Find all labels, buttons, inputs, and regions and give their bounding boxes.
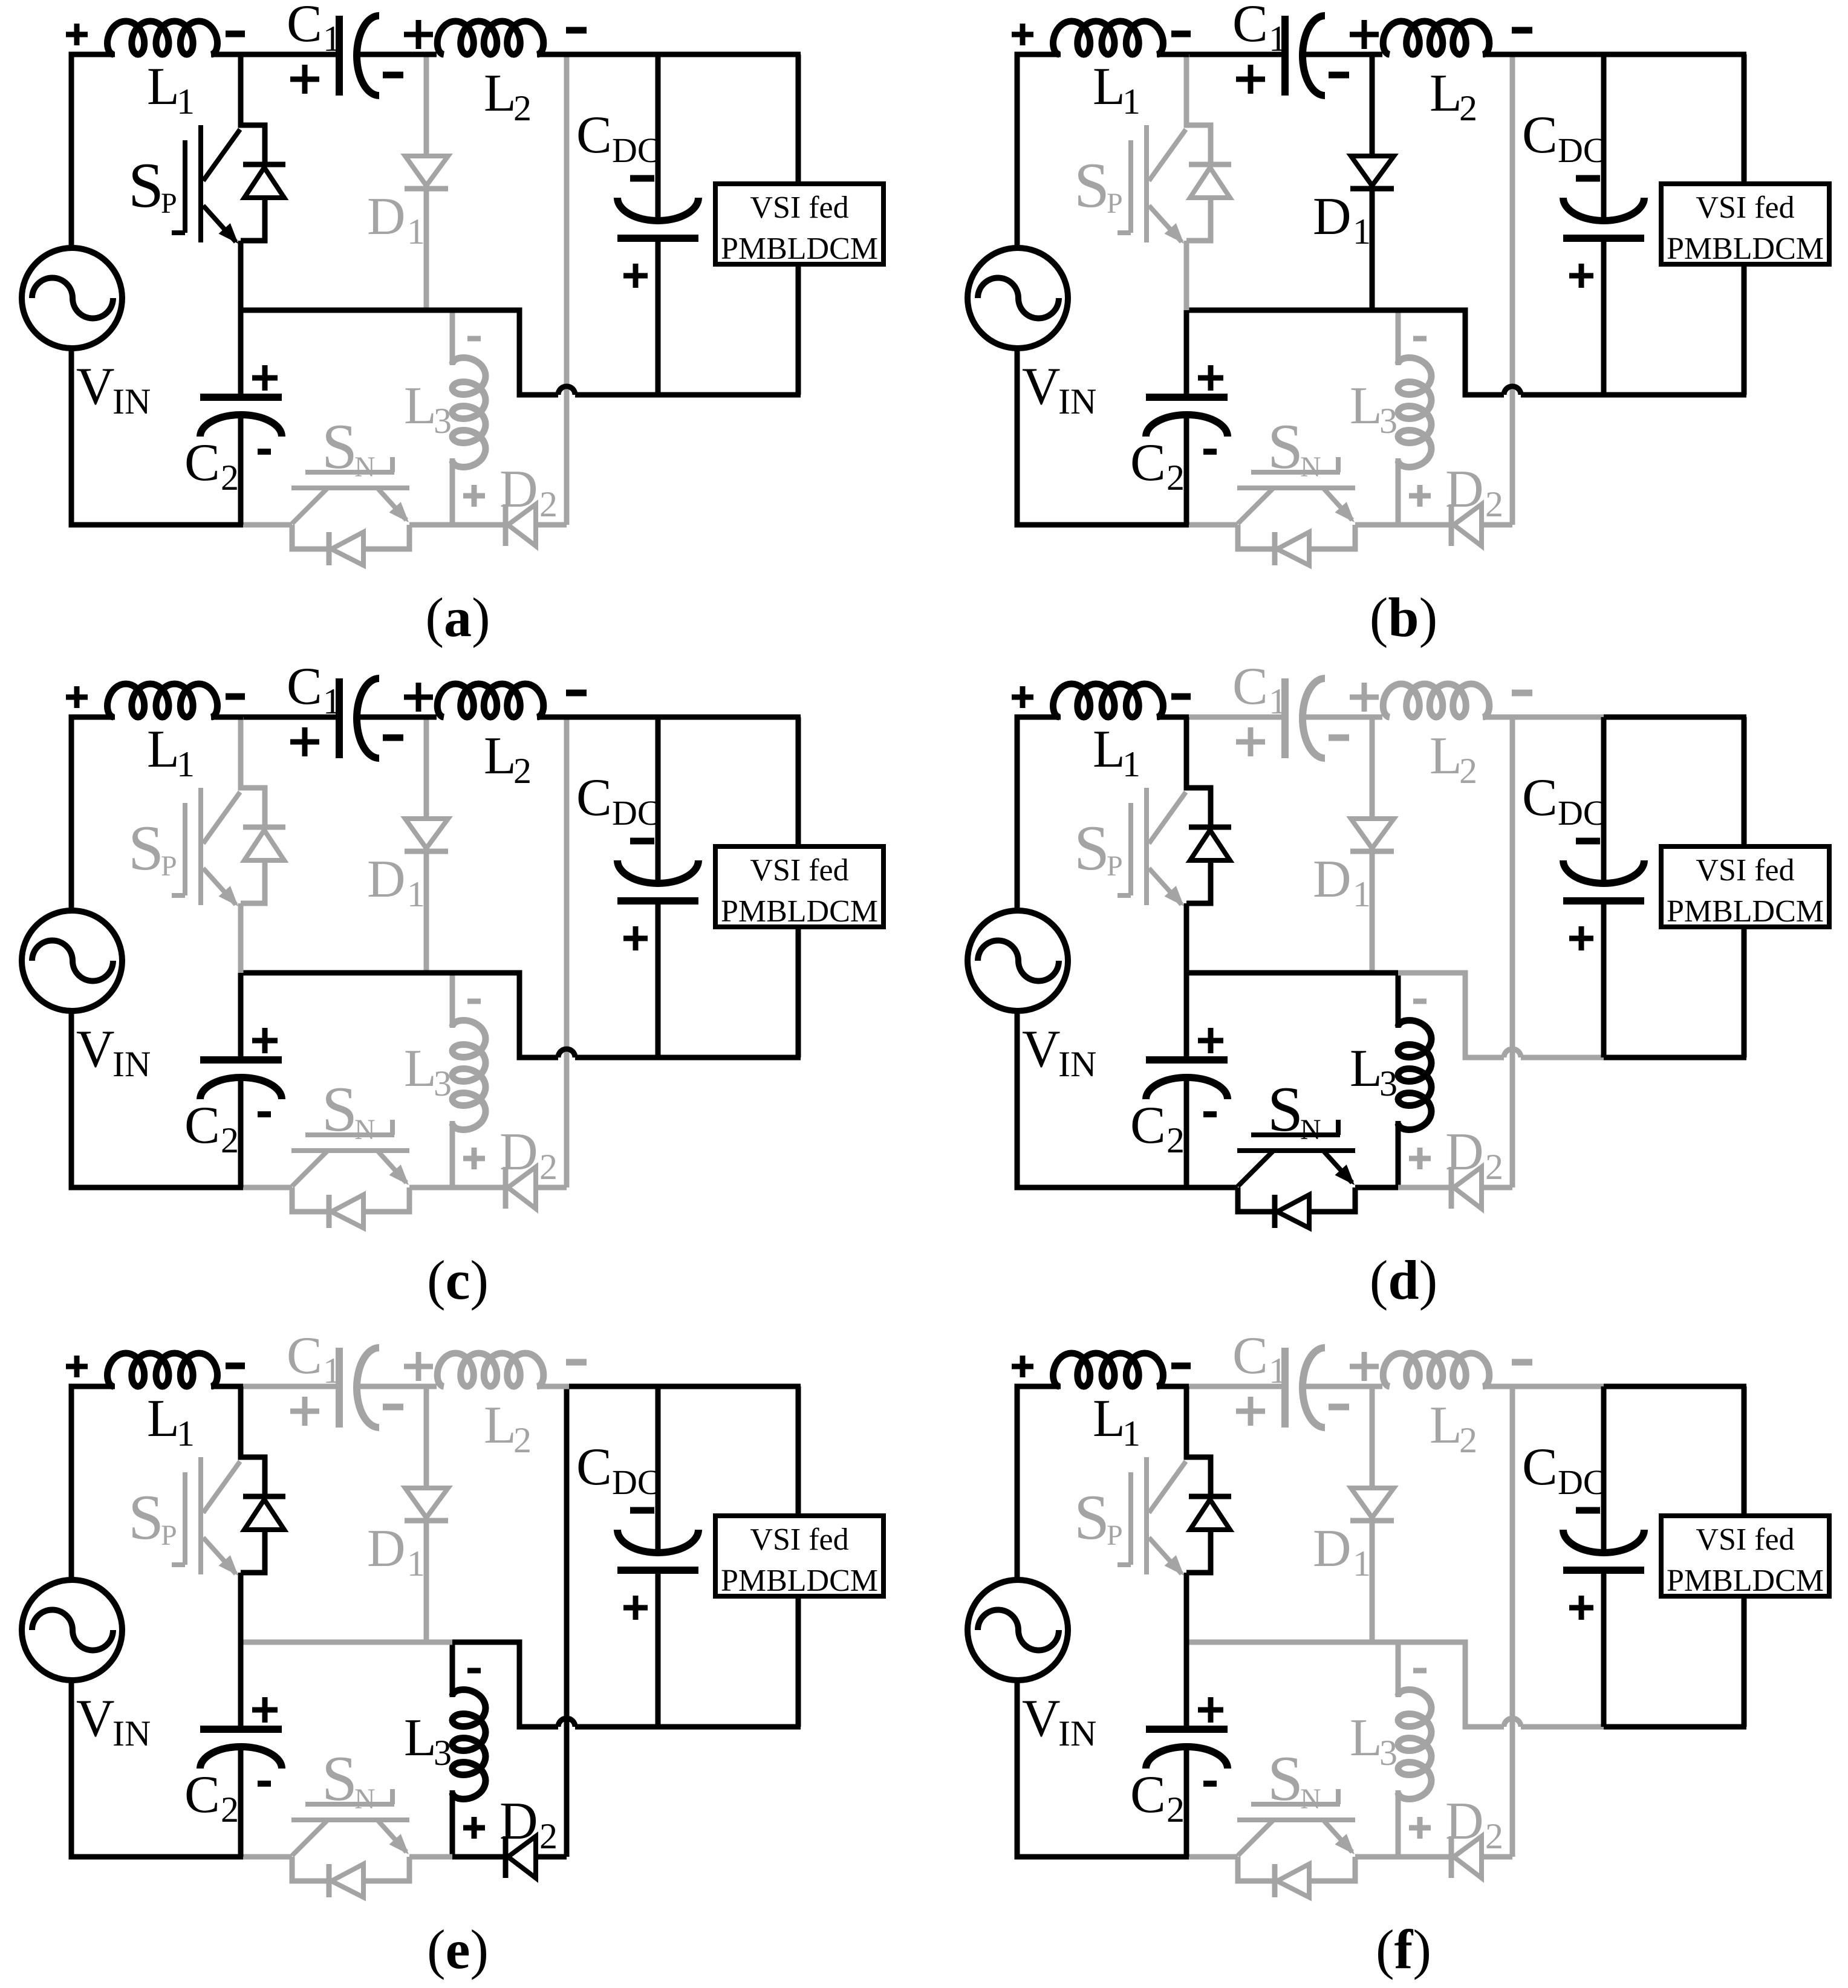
polarity plus of CDC (d): [1569, 926, 1593, 950]
polarity minus of CDC (c): [630, 838, 654, 845]
wire: top bus from L1 node to C1 (d): [1186, 715, 1285, 720]
wire: DC bus negative rail under VSI (b): [1604, 392, 1746, 398]
svg-text:C: C: [1522, 106, 1558, 164]
polarity minus of L1 (e): [226, 1363, 245, 1369]
svg-text:2: 2: [1166, 458, 1185, 498]
wire: node row from SP emitter to L3 (e): [241, 1640, 452, 1645]
polarity minus of L2 (c): [566, 690, 587, 697]
polarity plus of CDC (c): [623, 926, 648, 950]
label L2 (f): [1430, 1396, 1477, 1460]
label C1 (d): [1232, 657, 1287, 721]
wire: top bus from CDC to VSI (d): [1604, 715, 1746, 720]
polarity plus of C1 (a): [290, 65, 319, 94]
svg-text:N: N: [1300, 1783, 1321, 1815]
polarity minus of C2 (a): [258, 449, 271, 455]
svg-text:VSI fed: VSI fed: [1696, 1522, 1794, 1557]
capacitor C2 (f): [1146, 1642, 1228, 1857]
svg-text:1: 1: [323, 1351, 341, 1391]
label D2 (f): [1445, 1792, 1503, 1856]
capacitor C2 (c): [200, 973, 282, 1187]
svg-text:L: L: [147, 57, 180, 116]
svg-text:S: S: [1074, 150, 1110, 221]
wire: top bus from L2 node to CDC (a): [567, 52, 660, 57]
wire: top bus from CDC to VSI (c): [658, 715, 801, 720]
polarity minus of C1 (e): [383, 1404, 403, 1411]
polarity plus of C2 (b): [1198, 365, 1223, 391]
transistor SP (IGBT) (c): [172, 788, 240, 906]
label L2 (a): [484, 64, 532, 128]
svg-text:L: L: [404, 1709, 437, 1767]
polarity minus of L3 (e): [467, 1668, 481, 1674]
label C1 (e): [287, 1327, 341, 1391]
polarity plus of L3 (b): [1409, 485, 1431, 507]
inductor L1 (a): [108, 21, 218, 54]
transistor SP (IGBT) (a): [172, 125, 240, 244]
label SN (a): [322, 411, 376, 483]
wire: DC bus negative rail under VSI (c): [658, 1055, 801, 1061]
wire: link from L3 node to DC bus negative rail (with crossover hop) (c): [452, 973, 660, 1057]
wire: bottom rail from C2 to SN collector (b): [1186, 522, 1238, 528]
capacitor CDC (b): [1563, 54, 1644, 395]
label L2 (d): [1430, 727, 1477, 791]
polarity minus of L1 (c): [226, 694, 245, 700]
wire: node row from SP emitter to L3 (d): [1186, 970, 1398, 976]
wire: from VIN positive up to L1 (c): [71, 717, 115, 912]
svg-text:DC: DC: [612, 1463, 661, 1502]
svg-text:1: 1: [177, 82, 195, 122]
svg-text:L: L: [1430, 727, 1462, 785]
svg-text:C: C: [1232, 0, 1268, 53]
svg-text:2: 2: [539, 484, 558, 524]
wire: top bus from L2 node to CDC (e): [567, 1384, 660, 1389]
svg-text:3: 3: [1379, 1733, 1397, 1773]
svg-text:C: C: [576, 1438, 612, 1496]
wire: top bus from CDC to VSI (a): [658, 52, 801, 57]
inductor L3 (d): [1398, 973, 1431, 1187]
wire: bottom rail from C2 to SN collector (a): [241, 522, 292, 528]
label SP (b): [1074, 150, 1123, 221]
svg-text:IN: IN: [112, 1044, 151, 1084]
svg-text:PMBLDCM: PMBLDCM: [721, 894, 878, 929]
label C2 (c): [184, 1096, 239, 1160]
wire: bottom rail from L3 to D2 anode (d): [1398, 1185, 1451, 1191]
wire: top bus from L2 node to CDC (d): [1512, 715, 1606, 720]
load block: VSI fed PMBLDCM (c): [715, 846, 883, 929]
label CDC (e): [576, 1438, 661, 1502]
wire: net from L2 output node down to D2 cathode (e): [564, 1386, 570, 1857]
label C2 (a): [184, 434, 239, 498]
svg-text:2: 2: [513, 751, 532, 791]
polarity minus of L3 (b): [1413, 336, 1427, 342]
svg-text:1: 1: [177, 744, 195, 784]
label C2 (e): [184, 1765, 239, 1830]
label D1 (d): [1313, 850, 1371, 914]
inductor L2 (e): [437, 1353, 569, 1386]
svg-text:S: S: [128, 1482, 164, 1553]
label VIN (e): [76, 1689, 151, 1753]
label L1 (b): [1093, 57, 1140, 122]
label D2 (e): [499, 1792, 558, 1856]
svg-text:(d): (d): [1370, 1249, 1437, 1311]
svg-text:C: C: [287, 1327, 322, 1385]
polarity plus of C2 (a): [252, 365, 278, 391]
svg-text:D: D: [367, 187, 406, 246]
svg-text:L: L: [484, 727, 516, 785]
svg-text:(e): (e): [427, 1918, 489, 1980]
diode D1 (f): [1350, 1389, 1394, 1642]
transistor SP (IGBT) (d): [1118, 788, 1186, 906]
svg-text:V: V: [76, 1689, 115, 1748]
svg-text:D: D: [1313, 187, 1352, 246]
wire: bottom rail from L3 to D2 anode (a): [452, 522, 506, 528]
polarity minus of L2 (d): [1512, 690, 1532, 697]
wire: right branch to VSI load (a): [796, 54, 801, 395]
wire: from VIN negative along bottom to C2 (c): [71, 1010, 243, 1187]
svg-text:3: 3: [1379, 1064, 1397, 1103]
polarity minus of C2 (f): [1203, 1781, 1217, 1787]
svg-text:C: C: [184, 1096, 220, 1155]
svg-text:1: 1: [1353, 1544, 1371, 1584]
svg-text:3: 3: [434, 1733, 452, 1773]
wire: link from L3 node to DC bus negative rail (with crossover hop) (b): [1398, 310, 1606, 395]
svg-text:IN: IN: [112, 1714, 151, 1753]
wire: top bus from L1 node to C1 (a): [241, 52, 339, 57]
inductor L3 (f): [1398, 1642, 1431, 1857]
load block: VSI fed PMBLDCM (a): [715, 184, 883, 266]
diode D1 (d): [1350, 720, 1394, 973]
polarity minus of CDC (d): [1576, 838, 1600, 845]
svg-text:S: S: [322, 411, 357, 482]
transistor SN (IGBT) (f): [1237, 1789, 1355, 1856]
polarity minus of CDC (a): [630, 175, 654, 182]
wire: L1 to SP node (f): [1157, 1384, 1189, 1389]
wire: DC bus negative rail under VSI (f): [1604, 1724, 1746, 1730]
wire: from VIN negative along bottom to C2 (f): [1017, 1679, 1189, 1857]
svg-text:S: S: [128, 813, 164, 883]
svg-text:D: D: [1313, 1519, 1352, 1578]
svg-text:D: D: [1445, 1123, 1484, 1181]
svg-text:D: D: [1445, 460, 1484, 519]
svg-text:DC: DC: [612, 131, 661, 170]
diode: SP antiparallel diode path (b): [1186, 54, 1231, 310]
polarity plus of CDC (b): [1569, 264, 1593, 288]
svg-text:IN: IN: [1058, 1714, 1096, 1753]
wire: top bus from L1 node to C1 (b): [1186, 52, 1285, 57]
wire: L1 to SP node (d): [1157, 715, 1189, 720]
svg-text:D: D: [499, 1123, 538, 1181]
svg-text:C: C: [1232, 657, 1268, 716]
svg-text:PMBLDCM: PMBLDCM: [1667, 232, 1824, 266]
svg-text:C: C: [1130, 1765, 1166, 1824]
svg-text:IN: IN: [1058, 382, 1096, 421]
label CDC (f): [1522, 1438, 1607, 1502]
svg-text:S: S: [322, 1074, 357, 1145]
svg-text:VSI fed: VSI fed: [750, 190, 848, 225]
svg-text:L: L: [1350, 377, 1382, 435]
capacitor CDC (c): [617, 717, 698, 1057]
label D2 (b): [1445, 460, 1503, 524]
inductor L2 (c): [437, 684, 569, 717]
svg-text:2: 2: [221, 1790, 239, 1830]
label L1 (d): [1093, 720, 1140, 784]
capacitor C1 (f): [1285, 1348, 1382, 1428]
polarity plus of C1 (f): [1236, 1397, 1265, 1426]
svg-text:PMBLDCM: PMBLDCM: [721, 1564, 878, 1598]
diode: SP antiparallel diode path (d): [1186, 717, 1231, 973]
svg-text:3: 3: [434, 1064, 452, 1103]
label SN (c): [322, 1074, 376, 1146]
label D1 (f): [1313, 1519, 1371, 1584]
diode: SP antiparallel diode path (a): [241, 54, 285, 310]
label VIN (a): [76, 357, 151, 421]
svg-text:DC: DC: [1558, 1463, 1607, 1502]
label C1 (c): [287, 657, 341, 721]
svg-text:1: 1: [1269, 19, 1287, 59]
polarity minus of C1 (f): [1329, 1404, 1349, 1411]
load block: VSI fed PMBLDCM (f): [1661, 1516, 1829, 1598]
polarity minus of CDC (f): [1576, 1507, 1600, 1514]
inductor L3 (b): [1398, 310, 1431, 525]
svg-text:2: 2: [513, 88, 532, 128]
diode: SN bypass diode (a): [292, 525, 409, 565]
label CDC (b): [1522, 106, 1607, 170]
svg-text:VSI fed: VSI fed: [750, 853, 848, 888]
label VIN (f): [1022, 1689, 1096, 1753]
svg-text:N: N: [354, 1114, 376, 1146]
polarity plus of L1 (e): [66, 1356, 88, 1377]
svg-text:S: S: [1074, 1482, 1110, 1553]
svg-text:V: V: [1022, 357, 1061, 416]
wire: node row from SP emitter to L3 (a): [241, 308, 452, 313]
diode: SN bypass diode (f): [1238, 1857, 1355, 1897]
label VIN (c): [76, 1020, 151, 1084]
polarity plus of L3 (a): [463, 485, 485, 507]
wire: bottom rail from SN emitter to L3 (c): [409, 1185, 452, 1191]
svg-text:V: V: [76, 1020, 115, 1079]
transistor SN (IGBT) (d): [1237, 1120, 1355, 1186]
svg-text:N: N: [1300, 451, 1321, 483]
inductor L2 (a): [437, 21, 569, 54]
wire: top bus from CDC to VSI (e): [658, 1384, 801, 1389]
svg-text:DC: DC: [612, 793, 661, 833]
svg-text:C: C: [576, 106, 612, 164]
label L1 (a): [147, 57, 195, 122]
diode D2 (a): [506, 504, 567, 546]
svg-text:VSI fed: VSI fed: [750, 1522, 848, 1557]
svg-text:L: L: [404, 1039, 437, 1098]
wire: bottom rail from L3 to D2 anode (f): [1398, 1854, 1451, 1860]
svg-text:C: C: [1130, 434, 1166, 492]
diode D2 (c): [506, 1167, 567, 1209]
polarity plus of C2 (e): [252, 1697, 278, 1723]
capacitor C2 (d): [1146, 973, 1228, 1187]
capacitor CDC (f): [1563, 1386, 1644, 1727]
wire: bottom rail from SN emitter to L3 (e): [409, 1854, 452, 1860]
polarity minus of L2 (e): [566, 1359, 587, 1366]
svg-text:S: S: [1074, 813, 1110, 883]
wire: right branch to VSI load (b): [1742, 54, 1747, 395]
label D2 (c): [499, 1123, 558, 1187]
svg-text:P: P: [1107, 850, 1123, 882]
diode D1 (c): [405, 720, 448, 973]
capacitor CDC (d): [1563, 717, 1644, 1057]
polarity plus of L1 (b): [1012, 24, 1033, 45]
polarity plus of L2 (b): [1350, 20, 1379, 49]
wire: link from L3 node to DC bus negative rail (with crossover hop) (f): [1398, 1642, 1606, 1727]
polarity plus of CDC (a): [623, 264, 648, 288]
label L3 (d): [1350, 1039, 1397, 1103]
label C2 (b): [1130, 434, 1185, 498]
label VIN (b): [1022, 357, 1096, 421]
svg-text:L: L: [1430, 64, 1462, 123]
svg-text:C: C: [184, 1765, 220, 1824]
inductor L2 (b): [1383, 21, 1515, 54]
polarity minus of C1 (d): [1329, 735, 1349, 741]
polarity minus of L3 (d): [1413, 999, 1427, 1004]
svg-text:2: 2: [221, 1120, 239, 1160]
wire: top bus from CDC to VSI (b): [1604, 52, 1746, 57]
wire: top bus from L1 node to C1 (c): [241, 715, 339, 720]
svg-text:C: C: [1232, 1327, 1268, 1385]
svg-text:C: C: [184, 434, 220, 492]
svg-text:PMBLDCM: PMBLDCM: [1667, 894, 1824, 929]
svg-text:N: N: [354, 451, 376, 483]
wire: from VIN positive up to L1 (f): [1017, 1386, 1061, 1581]
svg-text:1: 1: [1122, 744, 1140, 784]
inductor L1 (f): [1053, 1353, 1163, 1386]
inductor L1 (d): [1053, 684, 1163, 717]
ac source VIN (d): [968, 911, 1068, 1011]
svg-text:P: P: [161, 187, 177, 219]
svg-text:2: 2: [1459, 1420, 1477, 1460]
polarity minus of C1 (c): [383, 735, 403, 741]
svg-text:2: 2: [1459, 88, 1477, 128]
label SN (e): [322, 1743, 376, 1815]
label SP (a): [128, 150, 177, 221]
svg-text:1: 1: [1353, 874, 1371, 914]
wire: node row from SP emitter to L3 (f): [1186, 1640, 1398, 1645]
wire: from VIN positive up to L1 (a): [71, 54, 115, 249]
svg-text:L: L: [147, 1389, 180, 1448]
diode: SN bypass diode (b): [1238, 525, 1355, 565]
wire: L1 to SP node (c): [211, 715, 243, 720]
diode D1 (e): [405, 1389, 448, 1642]
capacitor C2 (b): [1146, 310, 1228, 525]
polarity plus of C1 (c): [290, 727, 319, 756]
label L3 (f): [1350, 1709, 1397, 1773]
wire: right branch to VSI load (f): [1742, 1386, 1747, 1727]
polarity plus of L1 (a): [66, 24, 88, 45]
svg-text:L: L: [147, 720, 180, 779]
wire: bottom rail from L3 to D2 anode (c): [452, 1185, 506, 1191]
polarity plus of L2 (a): [404, 20, 433, 49]
wire: top bus from L2 node to CDC (c): [567, 715, 660, 720]
wire: from VIN positive up to L1 (e): [71, 1386, 115, 1581]
svg-text:C: C: [287, 657, 322, 716]
diode D2 (e): [506, 1836, 567, 1878]
label CDC (a): [576, 106, 661, 170]
label L3 (e): [404, 1709, 452, 1773]
polarity minus of L2 (a): [566, 27, 587, 34]
wire: top bus from L1 node to C1 (f): [1186, 1384, 1285, 1389]
capacitor C1 (a): [339, 16, 437, 96]
svg-text:DC: DC: [1558, 793, 1607, 833]
wire: right branch to VSI load (e): [796, 1386, 801, 1727]
capacitor C1 (d): [1285, 678, 1382, 758]
wire: net from L2 output node down to D2 cathode (b): [1510, 54, 1515, 525]
svg-text:2: 2: [1485, 1147, 1503, 1187]
wire: bottom rail from L3 to D2 anode (b): [1398, 522, 1451, 528]
label D1 (e): [367, 1519, 425, 1584]
polarity minus of L1 (d): [1171, 694, 1191, 700]
wire: right branch to VSI load (d): [1742, 717, 1747, 1057]
diode: SP antiparallel diode path (c): [241, 717, 285, 973]
diode: SP antiparallel diode path (f): [1186, 1386, 1231, 1642]
ac source VIN (c): [22, 911, 122, 1011]
capacitor C1 (c): [339, 678, 437, 758]
polarity minus of L1 (f): [1171, 1363, 1191, 1369]
polarity minus of L1 (a): [226, 31, 245, 37]
polarity plus of C1 (d): [1236, 727, 1265, 756]
svg-text:2: 2: [513, 1420, 532, 1460]
wire: node row from SP emitter to L3 (c): [241, 970, 452, 976]
svg-text:V: V: [1022, 1020, 1061, 1079]
wire: bottom rail from SN emitter to L3 (d): [1355, 1185, 1398, 1191]
svg-text:L: L: [404, 377, 437, 435]
inductor L2 (d): [1383, 684, 1515, 717]
svg-text:V: V: [76, 357, 115, 416]
svg-text:C: C: [576, 768, 612, 827]
diode: SN bypass diode (c): [292, 1187, 409, 1228]
wire: from VIN positive up to L1 (b): [1017, 54, 1061, 249]
svg-text:P: P: [161, 1519, 177, 1551]
label C2 (d): [1130, 1096, 1185, 1160]
capacitor C1 (b): [1285, 16, 1382, 96]
polarity minus of L3 (f): [1413, 1668, 1427, 1674]
load block: VSI fed PMBLDCM (b): [1661, 184, 1829, 266]
wire: bottom rail from C2 to SN collector (f): [1186, 1854, 1238, 1860]
wire: bottom rail from SN emitter to L3 (f): [1355, 1854, 1398, 1860]
svg-text:P: P: [1107, 187, 1123, 219]
polarity plus of L2 (c): [404, 683, 433, 712]
capacitor CDC (a): [617, 54, 698, 395]
label L3 (a): [404, 377, 452, 441]
svg-text:2: 2: [1459, 751, 1477, 791]
label SP (c): [128, 813, 177, 883]
label L3 (c): [404, 1039, 452, 1103]
inductor L2 (f): [1383, 1353, 1515, 1386]
svg-text:C: C: [1130, 1096, 1166, 1155]
polarity minus of C2 (b): [1203, 449, 1217, 455]
svg-text:1: 1: [177, 1414, 195, 1454]
wire: link from L3 node to DC bus negative rail (with crossover hop) (e): [452, 1642, 660, 1727]
wire: top bus from L2 node to CDC (b): [1512, 52, 1606, 57]
svg-text:L: L: [1093, 1389, 1125, 1448]
polarity plus of C2 (f): [1198, 1697, 1223, 1723]
wire: net from L2 output node down to D2 cathode (a): [564, 54, 570, 525]
inductor L1 (c): [108, 684, 218, 717]
svg-text:1: 1: [407, 874, 425, 914]
svg-text:VSI fed: VSI fed: [1696, 190, 1794, 225]
svg-text:2: 2: [539, 1816, 558, 1856]
label SP (e): [128, 1482, 177, 1553]
svg-text:VSI fed: VSI fed: [1696, 853, 1794, 888]
wire: top bus from L2 node to CDC (f): [1512, 1384, 1606, 1389]
label CDC (d): [1522, 768, 1607, 833]
transistor SP (IGBT) (f): [1118, 1457, 1186, 1576]
label CDC (c): [576, 768, 661, 833]
ac source VIN (f): [968, 1580, 1068, 1680]
